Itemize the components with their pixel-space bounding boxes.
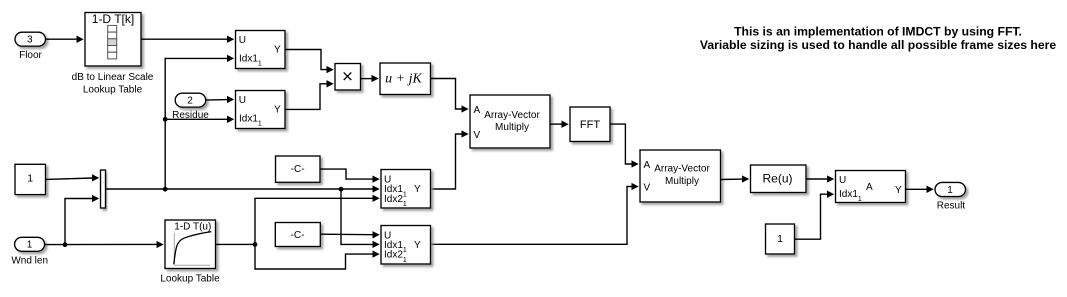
wire AVM1 to FFT bbox=[550, 121, 569, 128]
svg-text:-C-: -C- bbox=[291, 164, 305, 175]
constant 1 (bottom right) bbox=[766, 224, 795, 254]
svg-text:U: U bbox=[239, 35, 246, 46]
outport 1 Result bbox=[935, 182, 966, 211]
selector A (output) bbox=[836, 171, 906, 204]
selector3 (3-input) bbox=[381, 170, 431, 209]
wire selector3 Y to AVM1 V bbox=[431, 130, 469, 189]
svg-text:Multiply: Multiply bbox=[665, 176, 699, 187]
annotation text bbox=[700, 24, 1056, 52]
wire LT2 output with junction bbox=[216, 242, 258, 247]
svg-text:V: V bbox=[644, 183, 651, 194]
wire branch down to selector4 Idx2 bbox=[255, 244, 380, 269]
wire branch up to selector3 Idx2 bbox=[255, 195, 380, 245]
wire product to u+jK bbox=[361, 75, 379, 82]
svg-text:Y: Y bbox=[274, 104, 281, 115]
svg-text:FFT: FFT bbox=[580, 119, 600, 131]
svg-text:Floor: Floor bbox=[19, 50, 42, 61]
svg-text:-C-: -C- bbox=[291, 230, 305, 241]
wire selector4 Y to AVM2 V bbox=[431, 183, 639, 244]
block LT2 Lookup Table bbox=[160, 220, 220, 285]
selector U2 (second) bbox=[236, 91, 286, 129]
svg-text:1-D T[k]: 1-D T[k] bbox=[92, 12, 134, 26]
wire LUT1 to selector1 U bbox=[141, 36, 234, 43]
wire Re(u) to selectorA U bbox=[806, 175, 834, 182]
svg-text:V: V bbox=[474, 130, 481, 141]
inport 1 Wnd len bbox=[11, 237, 48, 266]
svg-text:Re(u): Re(u) bbox=[762, 172, 792, 186]
wire main vertical branch x=165 bbox=[165, 55, 234, 189]
svg-text:1: 1 bbox=[777, 233, 783, 245]
svg-text:Y: Y bbox=[274, 44, 281, 55]
product block X bbox=[335, 64, 361, 91]
svg-text:U: U bbox=[239, 95, 246, 106]
wire constant1 to selectorA Idx1 bbox=[795, 191, 835, 240]
svg-text:Array-Vector: Array-Vector bbox=[654, 163, 710, 174]
svg-text:Multiply: Multiply bbox=[495, 122, 529, 133]
wire branch to selector2 Idx1 bbox=[163, 116, 234, 123]
block u+jK bbox=[380, 63, 431, 95]
svg-text:Array-Vector: Array-Vector bbox=[484, 110, 540, 121]
mux bbox=[101, 170, 106, 208]
wire branch x=341 down to selector4 Idx1 bbox=[341, 189, 380, 248]
inport 3 Floor bbox=[15, 32, 46, 61]
svg-text:Y: Y bbox=[414, 240, 421, 251]
wire Residue to selector2 U bbox=[206, 96, 235, 103]
svg-text:1: 1 bbox=[947, 185, 953, 196]
wire -C-2 to selector4 U bbox=[320, 231, 379, 238]
svg-text:Lookup Table: Lookup Table bbox=[83, 84, 143, 95]
svg-text:U: U bbox=[839, 175, 846, 186]
svg-text:1: 1 bbox=[27, 240, 33, 251]
wire selectorA Y to Result bbox=[906, 186, 934, 193]
svg-text:This is an implementation of I: This is an implementation of IMDCT by us… bbox=[734, 24, 1022, 38]
wire mux output main horizontal bbox=[106, 185, 380, 192]
wire u+jK to AVM1 A bbox=[431, 79, 469, 113]
svg-text:A: A bbox=[474, 105, 481, 116]
wire Floor to LUT1 bbox=[46, 36, 84, 43]
wire branch up to mux input 2 bbox=[65, 195, 99, 245]
block FFT bbox=[570, 107, 610, 142]
constant -C- 2 bbox=[275, 223, 320, 247]
svg-text:3: 3 bbox=[27, 35, 33, 46]
svg-text:dB to Linear Scale: dB to Linear Scale bbox=[72, 72, 154, 83]
svg-text:Wnd len: Wnd len bbox=[11, 255, 48, 266]
svg-text:Variable sizing is used to han: Variable sizing is used to handle all po… bbox=[700, 38, 1056, 52]
constant -C- 1 bbox=[276, 156, 321, 182]
constant 1 (left) bbox=[15, 164, 46, 194]
svg-text:1-D T(u): 1-D T(u) bbox=[174, 222, 211, 233]
svg-text:A: A bbox=[866, 182, 873, 193]
wire -C-1 to selector3 U bbox=[320, 169, 380, 183]
wire selector2 Y to product bbox=[285, 80, 334, 109]
wire selector1 Y to product bbox=[285, 50, 334, 74]
inport 2 Residue bbox=[172, 93, 209, 121]
block AVM2 Array-Vector Multiply bbox=[640, 150, 721, 202]
svg-text:Lookup Table: Lookup Table bbox=[160, 274, 220, 285]
svg-text:1: 1 bbox=[27, 173, 33, 185]
svg-text:Result: Result bbox=[937, 201, 966, 212]
svg-text:u + jK: u + jK bbox=[385, 72, 422, 87]
block Re(u) bbox=[751, 165, 807, 193]
svg-text:A: A bbox=[644, 160, 651, 171]
block AVM1 Array-Vector Multiply bbox=[470, 95, 550, 148]
block LUT1 dB to Linear Scale Lookup Table bbox=[72, 12, 154, 95]
svg-text:Y: Y bbox=[895, 185, 902, 196]
wire FFT to AVM2 A bbox=[610, 124, 639, 168]
wire constant1 to mux bbox=[46, 174, 100, 181]
selector U1 (top) bbox=[236, 31, 286, 69]
wire AVM2 to Re(u) bbox=[721, 175, 750, 182]
svg-text:2: 2 bbox=[187, 96, 193, 107]
selector4 (3-input) bbox=[381, 226, 431, 265]
svg-text:Y: Y bbox=[414, 184, 421, 195]
wire Wnd len to LT2 bbox=[45, 241, 164, 248]
